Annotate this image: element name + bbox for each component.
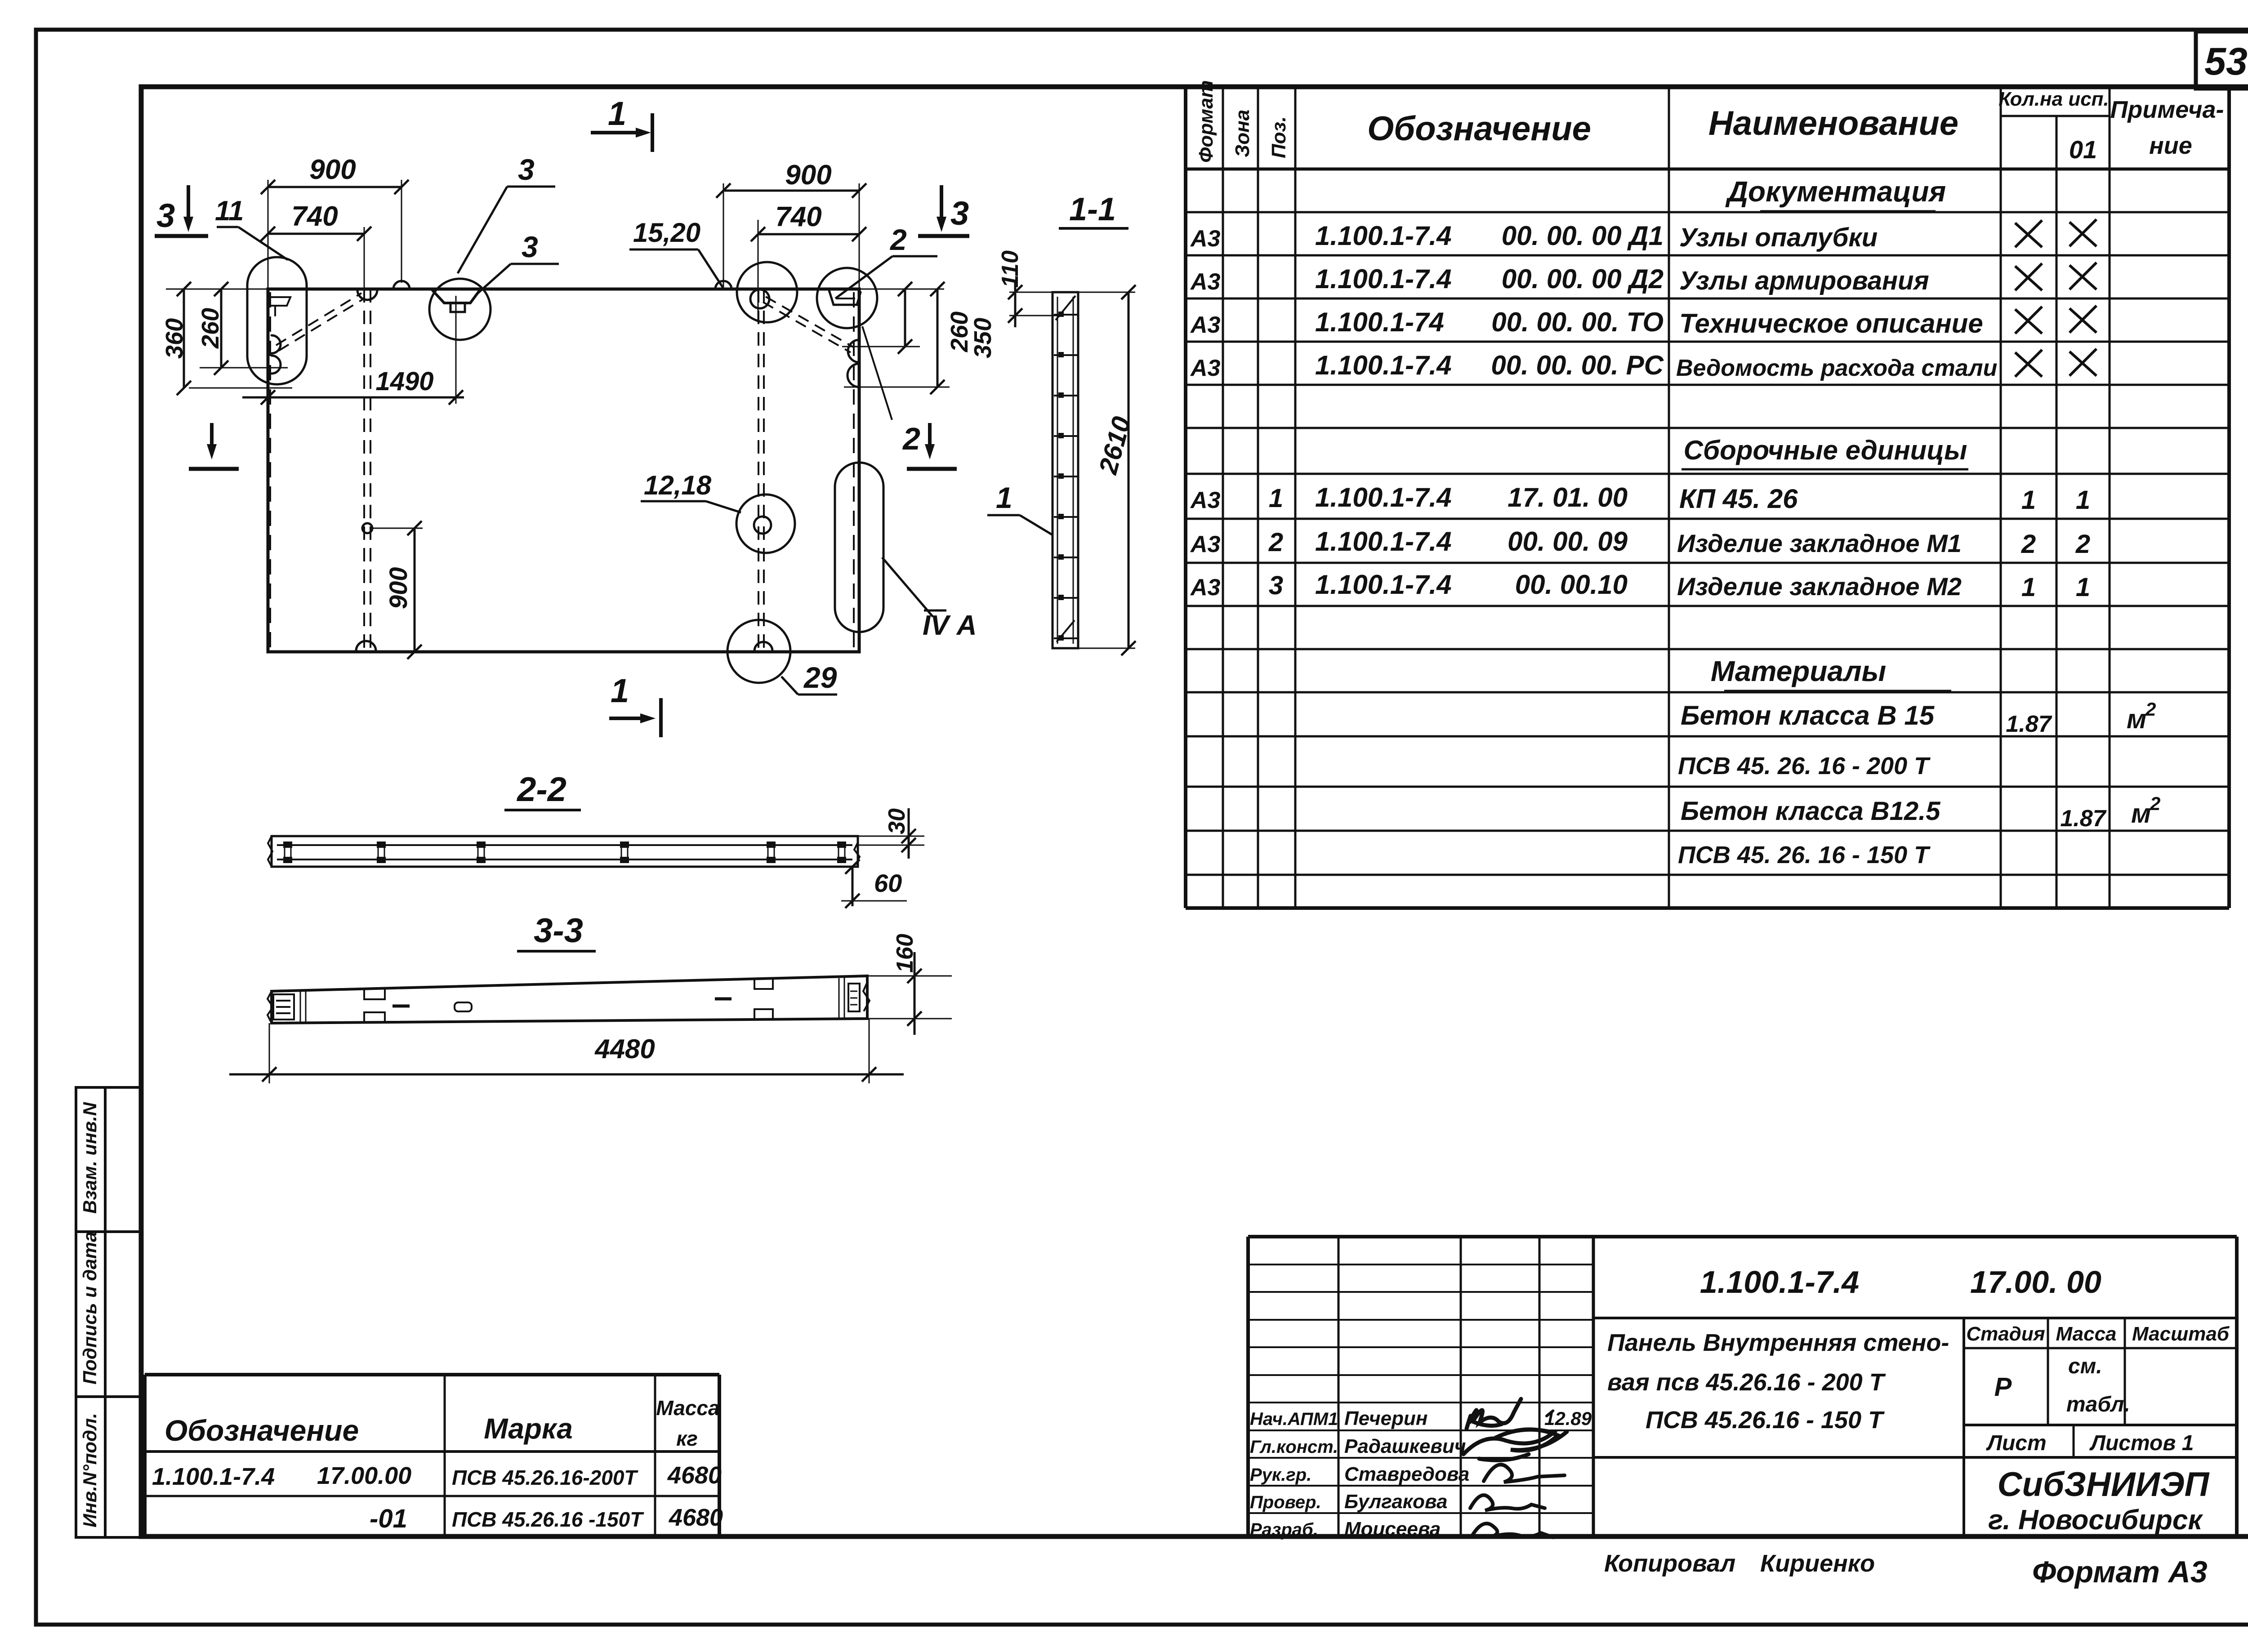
svg-text:1.100.1-7.4: 1.100.1-7.4 — [1315, 526, 1452, 557]
svg-text:Нач.АПМ1: Нач.АПМ1 — [1250, 1409, 1338, 1429]
dimension 900 vertical — [373, 528, 423, 529]
svg-text:Рук.гр.: Рук.гр. — [1250, 1465, 1311, 1485]
dashed line along left edge — [269, 292, 271, 650]
svg-text:3-3: 3-3 — [534, 912, 583, 950]
svg-text:Печерин: Печерин — [1344, 1407, 1427, 1429]
svg-text:12,18: 12,18 — [644, 470, 712, 500]
svg-text:1: 1 — [611, 672, 629, 709]
svg-text:740: 740 — [775, 201, 821, 232]
svg-text:1.100.1-7.4: 1.100.1-7.4 — [1315, 221, 1452, 251]
dimension 30 — [858, 836, 924, 837]
svg-text:Взам. инв.N: Взам. инв.N — [79, 1101, 100, 1214]
section mark 2 left arrow — [210, 423, 214, 452]
dashed diagonal left — [276, 293, 361, 345]
left margin attribute boxes — [76, 1087, 141, 1232]
sheet number box 53 — [2196, 31, 2248, 89]
svg-text:Масштаб: Масштаб — [2132, 1323, 2230, 1345]
svg-text:1: 1 — [608, 95, 626, 132]
svg-text:4480: 4480 — [594, 1034, 655, 1064]
svg-text:КП 45. 26: КП 45. 26 — [1679, 484, 1798, 514]
svg-text:4680: 4680 — [667, 1462, 722, 1489]
svg-text:кг: кг — [676, 1427, 698, 1450]
svg-text:Провер.: Провер. — [1250, 1492, 1321, 1512]
svg-text:Изделие закладное М1: Изделие закладное М1 — [1677, 529, 1962, 557]
left capsule opening — [247, 257, 307, 384]
bottom edge notch left — [356, 641, 376, 651]
svg-text:2: 2 — [2145, 699, 2156, 720]
svg-text:Масса: Масса — [2056, 1323, 2116, 1345]
strip rungs — [1054, 314, 1077, 316]
title block right part grid — [1593, 1235, 2237, 1238]
3-3 left end detail — [273, 994, 294, 1020]
svg-text:Узлы опалубки: Узлы опалубки — [1679, 223, 1878, 252]
svg-text:360: 360 — [161, 318, 188, 359]
svg-text:Формат А3: Формат А3 — [2032, 1555, 2208, 1589]
svg-text:ПСВ 45. 26. 16 - 200 Т: ПСВ 45. 26. 16 - 200 Т — [1678, 753, 1931, 779]
svg-text:00. 00.10: 00. 00.10 — [1515, 570, 1628, 600]
svg-text:Инв.N°подл.: Инв.N°подл. — [79, 1413, 100, 1527]
detail circle 29 — [727, 620, 790, 683]
svg-text:1.87: 1.87 — [2006, 711, 2052, 737]
svg-text:Материалы: Материалы — [1711, 655, 1886, 687]
svg-text:г. Новосибирск: г. Новосибирск — [1988, 1505, 2203, 1536]
svg-text:Узлы армирования: Узлы армирования — [1679, 266, 1929, 295]
dashed groove lines right pair — [758, 289, 759, 652]
svg-text:260: 260 — [197, 308, 224, 349]
svg-text:2: 2 — [889, 223, 907, 256]
groove profile in detail 2 — [829, 290, 861, 305]
svg-text:1.100.1-7.4: 1.100.1-7.4 — [1315, 264, 1452, 294]
hole at 900 dim — [362, 523, 372, 533]
detail circle 15-20 — [737, 262, 797, 322]
svg-text:Ведомость расхода стали: Ведомость расхода стали — [1676, 355, 1997, 381]
svg-text:Ставредова: Ставредова — [1344, 1463, 1469, 1485]
svg-text:1-1: 1-1 — [1069, 191, 1116, 227]
svg-text:Радашкевич: Радашкевич — [1344, 1435, 1466, 1457]
svg-text:ПСВ 45.26.16 -150Т: ПСВ 45.26.16 -150Т — [452, 1508, 644, 1531]
svg-text:00. 00. 09: 00. 00. 09 — [1508, 526, 1628, 557]
top edge bump left — [393, 281, 410, 289]
svg-text:15,20: 15,20 — [633, 218, 700, 248]
svg-text:1.100.1-7.4: 1.100.1-7.4 — [1315, 482, 1452, 512]
svg-text:1: 1 — [2021, 485, 2036, 515]
svg-text:160: 160 — [892, 934, 918, 973]
svg-text:Бетон класса В 15: Бетон класса В 15 — [1681, 700, 1935, 730]
holes on panel right edge — [848, 340, 859, 362]
svg-text:Примеча-: Примеча- — [2110, 96, 2224, 123]
svg-text:00. 00. 00 Д2: 00. 00. 00 Д2 — [1502, 264, 1664, 294]
specification table grid — [1184, 87, 1187, 908]
svg-text:2-2: 2-2 — [516, 770, 566, 809]
svg-text:ПСВ 45.26.16-200Т: ПСВ 45.26.16-200Т — [452, 1466, 638, 1489]
svg-text:Р: Р — [1994, 1372, 2012, 1402]
svg-text:3: 3 — [156, 197, 175, 234]
3-3 right end detail — [839, 978, 840, 1018]
svg-text:табл.: табл. — [2066, 1393, 2130, 1416]
svg-text:А3: А3 — [1190, 574, 1221, 601]
svg-text:2: 2 — [2150, 793, 2160, 814]
svg-text:Изделие закладное М2: Изделие закладное М2 — [1677, 572, 1962, 601]
svg-text:СибЗНИИЭП: СибЗНИИЭП — [1998, 1465, 2210, 1504]
svg-text:4680: 4680 — [669, 1504, 723, 1531]
dimension 740 right — [758, 220, 759, 322]
svg-text:Кол.на исп.: Кол.на исп. — [1998, 88, 2109, 110]
svg-text:А3: А3 — [1190, 487, 1221, 513]
svg-text:1: 1 — [1269, 484, 1283, 513]
svg-text:м: м — [2131, 798, 2151, 828]
svg-text:1.87: 1.87 — [2060, 806, 2106, 832]
dimension 900 top right — [723, 183, 724, 289]
section 2-2 dividers — [284, 845, 285, 859]
svg-text:1.100.1-74: 1.100.1-74 — [1315, 307, 1444, 337]
svg-text:1.100.1-7.4: 1.100.1-7.4 — [1315, 570, 1452, 600]
marks table grid — [145, 1373, 719, 1376]
dimension 4480 — [269, 1023, 270, 1083]
dimension 1490 — [455, 296, 457, 404]
svg-text:Подпись и дата: Подпись и дата — [79, 1232, 100, 1385]
svg-text:Документация: Документация — [1725, 175, 1946, 208]
top edge hole notch left — [357, 290, 377, 300]
svg-text:2: 2 — [1268, 528, 1283, 557]
svg-text:А3: А3 — [1190, 312, 1221, 338]
svg-text:350: 350 — [969, 318, 996, 358]
svg-text:1.100.1-7.4: 1.100.1-7.4 — [152, 1463, 275, 1490]
hole 12-18 — [754, 517, 771, 534]
dashed diagonal right — [766, 297, 853, 347]
svg-text:Наименование: Наименование — [1708, 104, 1958, 142]
dimension 360 left — [166, 289, 268, 290]
groove profile in detail 3 — [433, 290, 479, 303]
svg-text:3: 3 — [522, 230, 538, 263]
svg-text:2: 2 — [902, 421, 920, 456]
svg-text:60: 60 — [874, 869, 902, 897]
dimension 2610 — [1078, 292, 1135, 293]
svg-text:1.100.1-7.4: 1.100.1-7.4 — [1315, 350, 1452, 380]
svg-text:ние: ние — [2149, 132, 2192, 159]
svg-text:А3: А3 — [1190, 269, 1221, 295]
svg-text:м: м — [2127, 704, 2146, 734]
svg-text:29: 29 — [803, 661, 837, 694]
svg-text:17.00. 00: 17.00. 00 — [1970, 1265, 2101, 1300]
svg-text:Копировал: Копировал — [1604, 1550, 1735, 1577]
svg-text:1490: 1490 — [375, 367, 433, 396]
capsule holes on panel left edge — [272, 335, 281, 353]
svg-text:Техническое описание: Техническое описание — [1679, 308, 1983, 338]
svg-text:3: 3 — [950, 195, 969, 232]
detail flag item 11 — [269, 297, 290, 316]
svg-text:Зона: Зона — [1231, 110, 1253, 157]
dimension 260 left — [200, 367, 288, 369]
svg-text:110: 110 — [997, 250, 1023, 288]
svg-text:00. 00. 00. ТО: 00. 00. 00. ТО — [1491, 307, 1664, 337]
dashed groove lines left pair — [363, 289, 365, 652]
title block signature part grid — [1248, 1235, 1593, 1238]
bottom hole 29 — [754, 642, 772, 651]
svg-text:17.00.00: 17.00.00 — [317, 1462, 411, 1489]
svg-text:1: 1 — [2076, 573, 2090, 602]
dimension 160 — [867, 975, 952, 977]
detail circle 12-18 — [736, 494, 795, 553]
svg-text:-01: -01 — [370, 1504, 407, 1533]
svg-text:Кириенко: Кириенко — [1760, 1550, 1875, 1577]
strip diagonal — [1056, 296, 1075, 320]
svg-text:00. 00. 00 Д1: 00. 00. 00 Д1 — [1502, 221, 1664, 251]
svg-text:Формат: Формат — [1195, 80, 1217, 163]
3-3 small hole — [455, 1002, 472, 1011]
diagonal leader right edge — [862, 326, 892, 420]
3-3 mid dashes — [393, 1005, 410, 1008]
svg-text:1: 1 — [2076, 485, 2090, 515]
svg-text:740: 740 — [291, 201, 338, 232]
detail circle 2 — [817, 268, 877, 328]
svg-text:А3: А3 — [1190, 226, 1221, 252]
svg-text:01: 01 — [2069, 135, 2097, 164]
svg-text:30: 30 — [884, 808, 910, 834]
svg-text:вая псв 45.26.16 - 200 Т: вая псв 45.26.16 - 200 Т — [1607, 1369, 1886, 1396]
svg-text:Бетон класса В12.5: Бетон класса В12.5 — [1681, 797, 1940, 826]
signature scribbles — [1467, 1399, 1521, 1429]
svg-text:00. 00. 00. РС: 00. 00. 00. РС — [1491, 350, 1664, 380]
svg-text:см.: см. — [2068, 1354, 2102, 1378]
3-3 top bottom notches left — [364, 989, 385, 999]
section 1-1 strip outline — [1053, 292, 1078, 648]
svg-text:900: 900 — [384, 567, 412, 609]
svg-text:17. 01. 00: 17. 01. 00 — [1508, 482, 1628, 512]
svg-text:Булгакова: Булгакова — [1344, 1491, 1447, 1513]
dimension 900 top left — [268, 180, 269, 289]
svg-text:Листов 1: Листов 1 — [2089, 1431, 2194, 1455]
dimension 260 right — [859, 289, 944, 290]
svg-text:3: 3 — [518, 153, 535, 186]
detail circle 3 left — [429, 279, 491, 340]
panel plan outline — [268, 289, 859, 652]
svg-text:Обозначение: Обозначение — [1367, 110, 1591, 148]
svg-text:1: 1 — [2021, 573, 2036, 602]
section 2-2 inner lines — [277, 844, 852, 846]
svg-text:А3: А3 — [1190, 355, 1221, 381]
svg-text:900: 900 — [309, 154, 356, 185]
svg-text:11: 11 — [215, 196, 244, 227]
svg-text:2: 2 — [2075, 530, 2090, 559]
svg-text:Гл.конст.: Гл.конст. — [1250, 1437, 1338, 1457]
dimension 740 left — [364, 227, 365, 289]
svg-text:900: 900 — [785, 160, 831, 191]
right capsule opening — [835, 463, 883, 632]
top edge bump 15-20 — [715, 281, 731, 289]
section 3-3 bar outline — [272, 976, 867, 1023]
svg-text:3: 3 — [1269, 571, 1283, 600]
svg-text:Поз.: Поз. — [1268, 116, 1290, 158]
svg-text:Сборочные единицы: Сборочные единицы — [1684, 435, 1967, 465]
3-3 top bottom notches right — [754, 978, 773, 989]
svg-text:Лист: Лист — [1986, 1431, 2047, 1455]
svg-text:ПСВ 45.26.16 - 150 Т: ПСВ 45.26.16 - 150 Т — [1646, 1407, 1885, 1434]
svg-text:Обозначение: Обозначение — [165, 1414, 359, 1447]
dimension 350 right — [844, 387, 950, 388]
top edge hole notch right — [750, 289, 769, 308]
svg-text:Панель Внутренняя стено-: Панель Внутренняя стено- — [1607, 1329, 1949, 1356]
svg-text:260: 260 — [946, 312, 973, 352]
svg-text:А3: А3 — [1190, 531, 1221, 557]
section 2-2 bar outline — [272, 836, 858, 867]
dimension 110 — [1009, 292, 1053, 293]
svg-text:Масса: Масса — [656, 1396, 719, 1420]
svg-text:1.100.1-7.4: 1.100.1-7.4 — [1700, 1265, 1859, 1300]
svg-text:1: 1 — [996, 481, 1012, 514]
svg-text:Марка: Марка — [484, 1412, 573, 1445]
svg-text:2: 2 — [2021, 530, 2036, 559]
dimension 60 — [852, 867, 854, 906]
svg-text:ПСВ 45. 26. 16 - 150 Т: ПСВ 45. 26. 16 - 150 Т — [1678, 842, 1931, 868]
svg-text:Стадия: Стадия — [1966, 1323, 2045, 1345]
svg-text:53: 53 — [2204, 40, 2248, 83]
